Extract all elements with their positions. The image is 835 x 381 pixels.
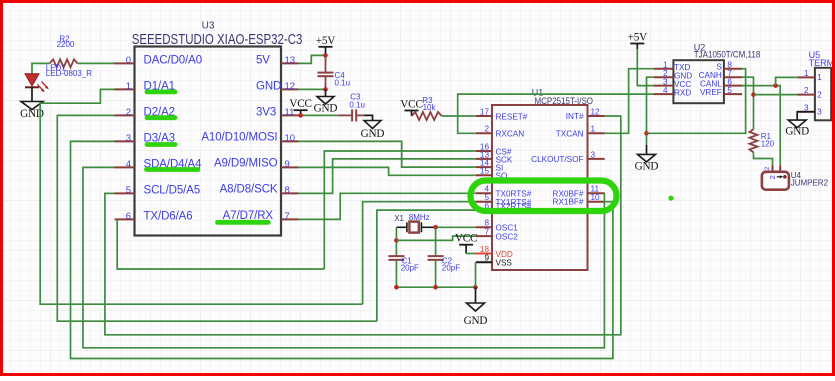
wire D3/A3 to RX1BF# bus — [71, 141, 613, 358]
svg-text:VCC: VCC — [400, 98, 422, 110]
svg-text:1: 1 — [804, 69, 809, 78]
wire LED1 cathode to ground — [31, 87, 33, 101]
svg-text:U3: U3 — [202, 20, 215, 31]
svg-text:DAC/D0/A0: DAC/D0/A0 — [144, 55, 203, 67]
svg-text:A10/D10/MOSI: A10/D10/MOSI — [201, 131, 277, 143]
marker underline SDA/D4/A4 — [147, 167, 199, 172]
ground below U2 — [635, 145, 659, 173]
wire crystal left riser — [395, 227, 397, 256]
U1 pin 3 CLKOUT/SOF — [531, 150, 605, 164]
svg-text:RXD: RXD — [674, 88, 691, 97]
svg-text:GND: GND — [256, 81, 281, 93]
capacitor C4 0.1u — [318, 55, 351, 89]
wire R1 to U4 — [754, 152, 773, 165]
U2 pin 2 GND — [654, 69, 693, 80]
wire MOSI (U3 pin10) to SI — [299, 141, 476, 167]
svg-text:GND: GND — [635, 160, 659, 172]
marker underline D1/A1 — [147, 90, 175, 95]
wire CS riser to CS# — [324, 151, 476, 269]
wire gnd rail — [396, 286, 475, 288]
U3 pin 11 3V3 — [256, 107, 299, 119]
U3 pin 0 DAC/D0/A0 — [115, 55, 203, 67]
svg-text:3: 3 — [817, 108, 822, 117]
wire GND branch to S — [647, 69, 746, 134]
wire C1 to gnd rail — [395, 260, 397, 287]
U3 pin 6 TX/D6/A6 — [115, 211, 193, 223]
svg-text:TXCAN: TXCAN — [556, 129, 584, 138]
U1 pin 10 RX1BF# — [553, 193, 605, 207]
svg-text:13: 13 — [285, 55, 296, 66]
svg-text:2: 2 — [804, 86, 809, 95]
wire crystal right to OSC1 — [436, 226, 476, 228]
connector U5 TERM body — [809, 50, 835, 120]
U1 pin 13 SCK — [476, 150, 513, 164]
wire VSS down — [475, 262, 477, 287]
U3 pin 8 A8/D8/SCK — [220, 183, 299, 196]
U3 pin 9 A9/D9/MISO — [214, 157, 299, 170]
node CANH/U5.2 junction — [751, 92, 756, 97]
wire TX1RTS riser — [363, 202, 476, 305]
U2 pin 7 CANH — [699, 69, 742, 80]
U2 pin 6 CANL — [700, 77, 742, 88]
svg-text:20pF: 20pF — [401, 264, 419, 273]
wire R2 to LED1 — [32, 63, 50, 73]
IC U1 MCP2515T-I/SO body — [492, 87, 593, 270]
U2 pin 8 S — [716, 61, 742, 72]
U1 pin 8 OSC1 — [476, 219, 518, 233]
U1 pin 14 SI — [476, 159, 503, 173]
wire C2 to gnd rail — [435, 260, 437, 287]
U1 pin 6 TX2RTS# — [476, 202, 532, 212]
svg-text:5V: 5V — [256, 55, 270, 67]
wire R2 to U3 pin0 — [78, 62, 115, 64]
svg-text:12: 12 — [285, 81, 296, 92]
svg-text:RXCAN: RXCAN — [496, 130, 525, 139]
svg-text:VCC: VCC — [289, 98, 311, 110]
svg-text:1: 1 — [126, 81, 131, 92]
svg-text:2: 2 — [484, 125, 489, 134]
U1 pin 18 VDD — [476, 245, 513, 259]
svg-text:1: 1 — [591, 125, 596, 134]
svg-text:0.1u: 0.1u — [335, 79, 351, 88]
svg-text:3: 3 — [591, 150, 596, 159]
U5 pin 1 — [797, 69, 822, 82]
U2 pin 1 TXD — [654, 61, 691, 72]
svg-text:INT#: INT# — [566, 112, 584, 121]
U1 pin 2 RXCAN — [476, 125, 524, 139]
wire C3 to ground — [365, 115, 373, 120]
U5 pin 2 — [797, 86, 822, 99]
svg-text:12: 12 — [591, 107, 601, 116]
marker underline D3/A3 — [147, 142, 175, 147]
power VCC (R3) — [400, 98, 422, 116]
svg-text:2: 2 — [764, 166, 771, 170]
IC U2 TJA1050T/CM,118 body — [673, 42, 760, 103]
U1 pin 15 SO — [476, 167, 508, 181]
capacitor C1 20pF — [388, 256, 419, 272]
wire R3 to U1 RESET# — [442, 115, 476, 117]
marker dot — [668, 196, 673, 201]
svg-text:A9/D9/MISO: A9/D9/MISO — [214, 157, 278, 169]
crystal X1 8MHz — [394, 213, 435, 233]
svg-text:6: 6 — [126, 211, 131, 222]
wire CANH branch to U5 pin2 — [754, 94, 798, 96]
wire CANL branch to U5 pin1 — [776, 77, 798, 85]
wire TXCAN to U2 TXD — [605, 69, 654, 134]
jumper U4 JUMPER2 — [762, 166, 829, 190]
svg-text:2200: 2200 — [57, 40, 75, 49]
svg-text:GND: GND — [314, 103, 338, 115]
node rail C1 — [394, 285, 399, 290]
svg-text:9: 9 — [285, 159, 290, 170]
svg-text:TERM: TERM — [809, 58, 835, 68]
node GND branch — [644, 131, 649, 136]
svg-text:120: 120 — [761, 139, 775, 148]
resistor R3 10k — [412, 96, 442, 120]
U2 pin 4 RXD — [654, 86, 692, 97]
svg-text:2: 2 — [817, 90, 822, 99]
power +5V (right) — [628, 32, 648, 50]
svg-text:7: 7 — [484, 228, 489, 237]
svg-text:GND: GND — [464, 315, 488, 327]
wire D2/A2 to TX2RTS# bus — [57, 115, 377, 321]
node CANL/U5.1 junction — [773, 83, 778, 88]
wire TX/D6/A6 to CS# bus — [117, 219, 324, 269]
svg-text:LED-0803_R: LED-0803_R — [46, 69, 92, 78]
svg-text:18: 18 — [480, 245, 490, 254]
wire RXCAN to U2 RXD — [458, 94, 654, 133]
ground below C4 — [314, 89, 338, 114]
svg-text:0: 0 — [126, 55, 131, 66]
svg-text:VDD: VDD — [496, 250, 513, 259]
U3 pin 12 GND — [256, 81, 299, 93]
wire U2 GND down — [647, 77, 654, 145]
svg-text:2: 2 — [768, 175, 777, 179]
node OSC2 junction — [394, 238, 399, 243]
wire MISO (U3 pin9) to SO — [299, 167, 476, 175]
svg-text:GND: GND — [361, 128, 385, 140]
svg-text:2: 2 — [126, 107, 131, 118]
svg-text:3V3: 3V3 — [256, 107, 276, 119]
node +5V/C4 junction — [323, 53, 328, 58]
node rail VSS — [473, 285, 478, 290]
svg-text:1: 1 — [817, 73, 822, 82]
svg-text:20pF: 20pF — [442, 264, 460, 273]
svg-text:CLKOUT/SOF: CLKOUT/SOF — [531, 155, 583, 164]
svg-text:4: 4 — [663, 86, 668, 95]
ground below LED1 — [20, 102, 44, 121]
svg-text:10: 10 — [285, 133, 296, 144]
U1 pin 11 RX0BF# — [553, 185, 605, 199]
power +5V (left) — [316, 35, 336, 56]
wire VCC to VDD — [466, 253, 476, 255]
svg-text:17: 17 — [480, 107, 490, 116]
U3 pin 10 A10/D10/MOSI — [201, 131, 298, 144]
node OSC1 junction — [433, 225, 438, 230]
svg-text:SEEEDSTUDIO XIAO-ESP32-C3: SEEEDSTUDIO XIAO-ESP32-C3 — [132, 32, 303, 48]
wire U3 pin11 3V3 — [299, 114, 339, 116]
U3 pin 2 D2/A2 — [115, 107, 175, 119]
U3 pin 7 A7/D7/RX — [223, 210, 299, 222]
U3 pin 13 5V — [256, 55, 299, 67]
svg-text:+5V: +5V — [316, 35, 336, 47]
svg-text:15: 15 — [480, 167, 490, 176]
wire U3 pin13 5V to +5V — [299, 55, 326, 63]
svg-text:MCP2515T-I/SO: MCP2515T-I/SO — [535, 96, 594, 106]
U1 pin 17 RESET# — [476, 107, 528, 121]
svg-text:8: 8 — [285, 185, 290, 196]
U1 pin 4 TX0RTS# — [476, 185, 532, 199]
wire +5V to U2 VCC — [637, 49, 653, 86]
wire U5 pin3 to ground — [797, 112, 815, 120]
U2 pin 5 VREF — [700, 86, 742, 97]
svg-text:TX/D6/A6: TX/D6/A6 — [144, 211, 193, 223]
ground right of C3 — [361, 121, 385, 141]
power VCC (VDD) — [455, 233, 477, 254]
U3 pin 1 D1/A1 — [115, 81, 175, 93]
U1 pin 16 CS# — [476, 142, 512, 156]
U5 pin 3 — [797, 103, 822, 116]
U2 pin 3 VCC — [654, 77, 692, 88]
capacitor C3 0.1u — [338, 93, 365, 122]
svg-text:VREF: VREF — [700, 88, 722, 97]
svg-text:5: 5 — [727, 86, 732, 95]
svg-text:3: 3 — [126, 133, 131, 144]
LED LED1 LED-0803_R — [25, 63, 92, 92]
U1 pin 12 INT# — [566, 107, 605, 121]
U3 pin 4 SDA/D4/A4 — [115, 159, 203, 171]
svg-text:SCL/D5/A5: SCL/D5/A5 — [144, 185, 201, 197]
svg-text:8: 8 — [484, 219, 489, 228]
wire D1/A1 to TX1RTS# bus — [40, 89, 362, 304]
svg-text:9: 9 — [484, 254, 489, 263]
power VCC (3V3 net) — [289, 98, 311, 115]
svg-text:5: 5 — [126, 185, 131, 196]
svg-text:RESET#: RESET# — [496, 112, 528, 121]
svg-text:VCC: VCC — [455, 233, 477, 245]
node rail C2 — [433, 285, 438, 290]
svg-text:10k: 10k — [423, 103, 437, 112]
svg-text:TJA1050T/CM,118: TJA1050T/CM,118 — [694, 50, 761, 60]
resistor R2 2200 — [50, 35, 78, 68]
IC U3 SEEEDSTUDIO XIAO-ESP32-C3 body — [132, 20, 303, 235]
svg-text:4: 4 — [126, 159, 131, 170]
svg-text:OSC1: OSC1 — [496, 224, 519, 233]
svg-text:RX1BF#: RX1BF# — [553, 198, 584, 207]
svg-text:A8/D8/SCK: A8/D8/SCK — [220, 183, 278, 195]
svg-text:JUMPER2: JUMPER2 — [791, 178, 829, 187]
marker ellipse around RTS/BF pins — [471, 181, 617, 212]
wire SDA/D4/A4 to RX0BF# bus — [83, 167, 604, 347]
wire SCK (U3 pin8) to SCK — [299, 159, 476, 194]
U3 pin 3 D3/A3 — [115, 133, 175, 145]
svg-text:10: 10 — [591, 193, 601, 202]
U1 pin 9 VSS — [476, 254, 513, 268]
svg-text:7: 7 — [285, 211, 290, 222]
svg-text:VSS: VSS — [496, 259, 513, 268]
wire RX (U3 pin7) to TX0RTS# — [299, 193, 476, 219]
node VCC/3V3 junction — [298, 113, 303, 118]
svg-text:+5V: +5V — [628, 32, 648, 44]
U3 pin 5 SCL/D5/A5 — [115, 185, 201, 197]
svg-text:8MHz: 8MHz — [409, 213, 430, 222]
svg-text:OSC2: OSC2 — [496, 233, 519, 242]
wire CANH down to R1 — [742, 77, 754, 129]
capacitor C2 20pF — [428, 256, 461, 272]
U1 pin 7 OSC2 — [476, 228, 518, 242]
U1 pin 5 TX1RTS# — [476, 193, 532, 207]
marker underline A7/D7/RX — [218, 220, 269, 225]
wire U3 pin12 GND to C4 — [299, 88, 326, 90]
wire OSC2 branch — [396, 236, 475, 240]
marker underline D2/A2 — [147, 115, 175, 120]
svg-text:X1: X1 — [394, 214, 404, 223]
svg-text:GND: GND — [785, 126, 809, 138]
resistor R1 120 — [750, 129, 775, 152]
wire CANL to U4 — [742, 86, 780, 166]
wire crystal right to C2 — [435, 227, 437, 256]
wire SCL/D5/A5 to INT# bus — [105, 116, 621, 335]
wire TX2RTS riser — [377, 210, 476, 321]
node C4/GND junction — [323, 87, 328, 92]
svg-text:0.1u: 0.1u — [349, 100, 365, 109]
ground below U5 — [785, 120, 809, 138]
U1 pin 1 TXCAN — [556, 125, 605, 139]
ground below rail — [464, 287, 488, 327]
